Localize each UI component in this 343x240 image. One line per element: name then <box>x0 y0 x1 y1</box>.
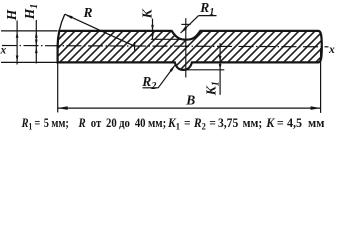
notch axis vertical line <box>185 18 187 77</box>
svg-text:x: x <box>0 44 7 56</box>
dimension B <box>58 48 321 113</box>
svg-text:K1: K1 <box>204 81 222 96</box>
wire: bulge bottom level line <box>187 69 224 71</box>
bar outline stroke <box>58 31 322 70</box>
leader R1 with arrowhead <box>180 16 216 34</box>
wire: top edge extension line to left margin <box>1 30 58 32</box>
svg-text:H: H <box>4 9 19 21</box>
svg-text:H1: H1 <box>22 4 40 21</box>
radius arc R (left end, extended above outline) <box>58 14 65 46</box>
hatching (45 deg) clipped to bar <box>18 10 343 80</box>
svg-text:R: R <box>83 5 93 20</box>
caption <box>21 116 69 132</box>
dimension K1 <box>219 43 222 95</box>
dimension H1 <box>35 20 38 64</box>
leader R2 with arrowhead <box>143 65 176 88</box>
svg-text:R2: R2 <box>141 74 156 92</box>
svg-text:K=4,5мм: K=4,5мм <box>265 115 325 130</box>
radius line R with arrowhead and center cross <box>65 14 135 50</box>
wire: bottom edge extension line to left margin <box>1 61 58 63</box>
svg-text:Rот20до40мм;: Rот20до40мм; <box>78 115 167 130</box>
svg-text:K: K <box>139 8 154 19</box>
svg-text:x: x <box>328 44 335 56</box>
specimen body (bar) outline <box>58 31 322 70</box>
svg-text:B: B <box>185 93 195 108</box>
dimension K <box>151 19 154 40</box>
svg-text:K1=R2=3,75мм;: K1=R2=3,75мм; <box>167 115 262 131</box>
wire: notch bottom level line <box>151 38 187 40</box>
axis x-x (dash-dot centerline) <box>2 46 329 47</box>
dimension H <box>16 21 19 65</box>
notch center tick (R1 arc center mark) <box>181 23 190 25</box>
svg-text:R1=5мм;: R1=5мм; <box>21 116 69 132</box>
